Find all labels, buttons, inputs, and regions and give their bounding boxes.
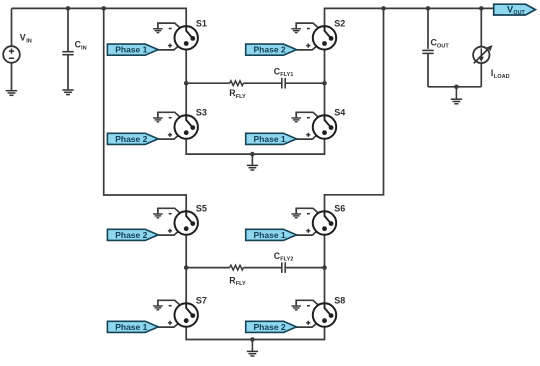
svg-text:S8: S8 bbox=[334, 296, 345, 306]
minus terminal of S2 bbox=[307, 28, 310, 30]
plus terminal of S4 bbox=[306, 133, 310, 137]
minus terminal of S5 bbox=[169, 213, 172, 215]
svg-text:S2: S2 bbox=[334, 18, 345, 28]
svg-text:Phase 1: Phase 1 bbox=[115, 45, 147, 55]
switch S1 (circle body) bbox=[175, 26, 198, 49]
wire: VIN positive lead up to rail bbox=[11, 8, 13, 46]
switch S3 arm and contacts bbox=[186, 114, 193, 127]
capacitor CFLY2 bbox=[281, 262, 283, 273]
node: left branch tap on top rail bbox=[101, 6, 106, 11]
svg-text:OUT: OUT bbox=[437, 43, 449, 49]
svg-text:Phase 1: Phase 1 bbox=[254, 134, 286, 144]
switch S6 arm and contacts bbox=[325, 210, 332, 223]
plus terminal of S7 bbox=[168, 321, 172, 325]
ground (driver of S2) bbox=[291, 28, 301, 30]
ground (driver of S3) bbox=[153, 117, 163, 119]
wire: S1 bottom to node A and into S3 bbox=[185, 49, 187, 116]
ground (VIN) bbox=[6, 90, 17, 92]
svg-text:Phase 2: Phase 2 bbox=[254, 322, 286, 332]
svg-text:FLY: FLY bbox=[236, 94, 246, 100]
svg-text:S1: S1 bbox=[196, 18, 207, 28]
svg-text:Phase 1: Phase 1 bbox=[115, 322, 147, 332]
wire: S4 driver minus-to-ground lead bbox=[296, 112, 320, 119]
switch S7 (circle body) bbox=[175, 303, 198, 326]
ground (CIN) bbox=[62, 89, 73, 91]
switch S8 arm and contacts bbox=[325, 302, 332, 315]
switch S4 (circle body) bbox=[313, 115, 336, 138]
minus terminal of S8 bbox=[307, 305, 310, 307]
current source ILOAD bbox=[473, 47, 489, 63]
svg-text:S7: S7 bbox=[196, 296, 207, 306]
svg-text:V: V bbox=[20, 33, 26, 43]
svg-text:FLY2: FLY2 bbox=[280, 257, 293, 263]
wire: top-left rail from VIN to S1 bbox=[12, 8, 187, 25]
capacitor CIN bbox=[62, 51, 73, 53]
node: ground tap on S3-S4 rail bbox=[250, 152, 255, 157]
ground (driver of S6) bbox=[291, 213, 301, 215]
wire: S7 bottom / S8 bottom rail bbox=[186, 326, 324, 339]
wire: CIN to ground bbox=[67, 55, 69, 90]
plus terminal of S3 bbox=[168, 133, 172, 137]
node label Phase 2 (drives S3) bbox=[107, 133, 158, 144]
svg-text:Phase 2: Phase 2 bbox=[254, 45, 286, 55]
plus terminal of S5 bbox=[168, 229, 172, 233]
resistor RFLY (top) bbox=[230, 81, 244, 86]
wire: CFLY2 to node D bbox=[286, 267, 325, 269]
wire: CFLY1 to node B bbox=[286, 82, 325, 84]
switch S3 (circle body) bbox=[175, 115, 198, 138]
minus terminal of S3 bbox=[169, 117, 172, 119]
svg-text:LOAD: LOAD bbox=[494, 74, 510, 80]
variable arrow through ILOAD bbox=[474, 49, 488, 63]
wire: S4 driver plus lead from phase box bbox=[296, 133, 320, 140]
svg-text:S6: S6 bbox=[334, 204, 345, 214]
resistor RFLY (bottom) bbox=[230, 265, 244, 270]
wire: S7 driver minus-to-ground lead bbox=[158, 300, 182, 307]
plus terminal of S1 bbox=[168, 44, 172, 48]
voltage source VIN bbox=[3, 46, 20, 63]
node label Phase 1 (drives S7) bbox=[107, 321, 158, 332]
svg-text:FLY: FLY bbox=[236, 281, 246, 287]
wire: S5 bottom to node C and into S7 bbox=[185, 234, 187, 304]
wire: S6 driver plus lead from phase box bbox=[296, 229, 320, 236]
switch S5 arm and contacts bbox=[186, 210, 193, 223]
node label Phase 2 (drives S5) bbox=[107, 229, 158, 240]
ground (driver of S4) bbox=[291, 117, 301, 119]
svg-text:S4: S4 bbox=[334, 108, 345, 118]
node B: right end of CFLY1 branch bbox=[322, 81, 327, 86]
wire: RFLY to CFLY2 bbox=[243, 267, 281, 269]
svg-text:IN: IN bbox=[26, 39, 32, 45]
wire: ILOAD bottom bbox=[480, 63, 482, 87]
wire: long right drop from top rail to S6 bbox=[325, 8, 384, 211]
ground (output rail) bbox=[455, 87, 457, 99]
wire: long left drop from top rail to S5 bbox=[104, 8, 187, 211]
switch S4 arm and contacts bbox=[325, 114, 332, 127]
ground (driver of S1) bbox=[153, 28, 163, 30]
switch S1 arm and contacts bbox=[186, 25, 193, 38]
node: ILOAD tap on top rail bbox=[479, 6, 484, 11]
node: right branch tap on top rail bbox=[381, 6, 386, 11]
plus terminal of S8 bbox=[306, 321, 310, 325]
capacitor CFLY1 bbox=[281, 78, 283, 89]
minus terminal of S7 bbox=[169, 305, 172, 307]
wire: S3 driver minus-to-ground lead bbox=[158, 112, 182, 119]
wire: S5 driver plus lead from phase box bbox=[158, 229, 182, 236]
wire: S8 driver minus-to-ground lead bbox=[296, 300, 320, 307]
ground (S3-S4 rail) bbox=[251, 154, 253, 165]
node label Phase 1 (drives S4) bbox=[246, 133, 297, 144]
capacitor COUT bbox=[422, 49, 433, 51]
ground (S7-S8 rail) bbox=[251, 340, 253, 352]
svg-text:S3: S3 bbox=[196, 108, 207, 118]
ground (driver of S7) bbox=[153, 305, 163, 307]
node label Phase 2 (drives S8) bbox=[246, 321, 297, 332]
plus terminal of S6 bbox=[306, 229, 310, 233]
svg-text:Phase 2: Phase 2 bbox=[115, 230, 147, 240]
wire: S6 driver minus-to-ground lead bbox=[296, 208, 320, 215]
wire: VIN to ground bbox=[11, 63, 13, 91]
switch S2 (circle body) bbox=[313, 26, 336, 49]
node label Phase 1 (drives S6) bbox=[246, 229, 297, 240]
wire: COUT-ILOAD bottom rail bbox=[428, 86, 481, 88]
node label VOUT bbox=[494, 4, 536, 15]
node D: right end of CFLY2 branch bbox=[322, 265, 327, 270]
svg-text:OUT: OUT bbox=[513, 10, 525, 16]
node: COUT tap on top rail bbox=[426, 6, 431, 11]
switch S6 (circle body) bbox=[313, 211, 336, 234]
node A: left end of CFLY1 branch bbox=[184, 81, 189, 86]
ground (driver of S8) bbox=[291, 305, 301, 307]
switch S7 arm and contacts bbox=[186, 302, 193, 315]
switch S5 (circle body) bbox=[175, 211, 198, 234]
wire: S6 bottom to node D and into S8 bbox=[324, 234, 326, 304]
wire: node A to RFLY bbox=[186, 82, 230, 84]
node: ground tap on S7-S8 rail bbox=[250, 337, 255, 342]
minus terminal of S6 bbox=[307, 213, 310, 215]
svg-text:FLY1: FLY1 bbox=[280, 72, 293, 78]
switch S2 arm and contacts bbox=[325, 25, 332, 38]
wire: S5 driver minus-to-ground lead bbox=[158, 208, 182, 215]
svg-text:Phase 1: Phase 1 bbox=[254, 230, 286, 240]
plus terminal of S2 bbox=[306, 44, 310, 48]
node: CIN tap on top rail bbox=[66, 6, 71, 11]
wire: ILOAD branch down from rail bbox=[480, 8, 482, 47]
minus terminal of S4 bbox=[307, 117, 310, 119]
wire: COUT branch down from rail bbox=[427, 8, 429, 49]
node label Phase 2 (drives S2) bbox=[246, 44, 297, 55]
wire: CIN lead down from rail bbox=[67, 8, 69, 51]
svg-text:S5: S5 bbox=[196, 204, 207, 214]
wire: node C to RFLY bbox=[186, 267, 230, 269]
wire: COUT bottom bbox=[427, 54, 429, 87]
wire: RFLY to CFLY1 bbox=[243, 82, 281, 84]
wire: S1 driver minus-to-ground lead bbox=[158, 23, 182, 30]
wire: S2 driver plus lead from phase box bbox=[296, 43, 320, 50]
wire: S2 driver minus-to-ground lead bbox=[296, 23, 320, 30]
node label Phase 1 (drives S1) bbox=[107, 44, 158, 55]
node C: left end of CFLY2 branch bbox=[184, 265, 189, 270]
ground (driver of S5) bbox=[153, 213, 163, 215]
wire: S1 driver plus lead from phase box bbox=[158, 43, 182, 50]
svg-text:Phase 2: Phase 2 bbox=[115, 134, 147, 144]
wire: S3 driver plus lead from phase box bbox=[158, 133, 182, 140]
wire: S8 driver plus lead from phase box bbox=[296, 321, 320, 328]
wire: S3 bottom / S4 bottom rail bbox=[186, 138, 324, 154]
wire: S7 driver plus lead from phase box bbox=[158, 321, 182, 328]
node: ground tap on output rail bbox=[454, 85, 459, 90]
switch S8 (circle body) bbox=[313, 303, 336, 326]
wire: S2 bottom to node B and into S4 bbox=[324, 49, 326, 116]
minus terminal of S1 bbox=[169, 28, 172, 30]
wire: top-right rail from S2 to VOUT bbox=[325, 8, 495, 25]
svg-text:IN: IN bbox=[81, 45, 87, 51]
